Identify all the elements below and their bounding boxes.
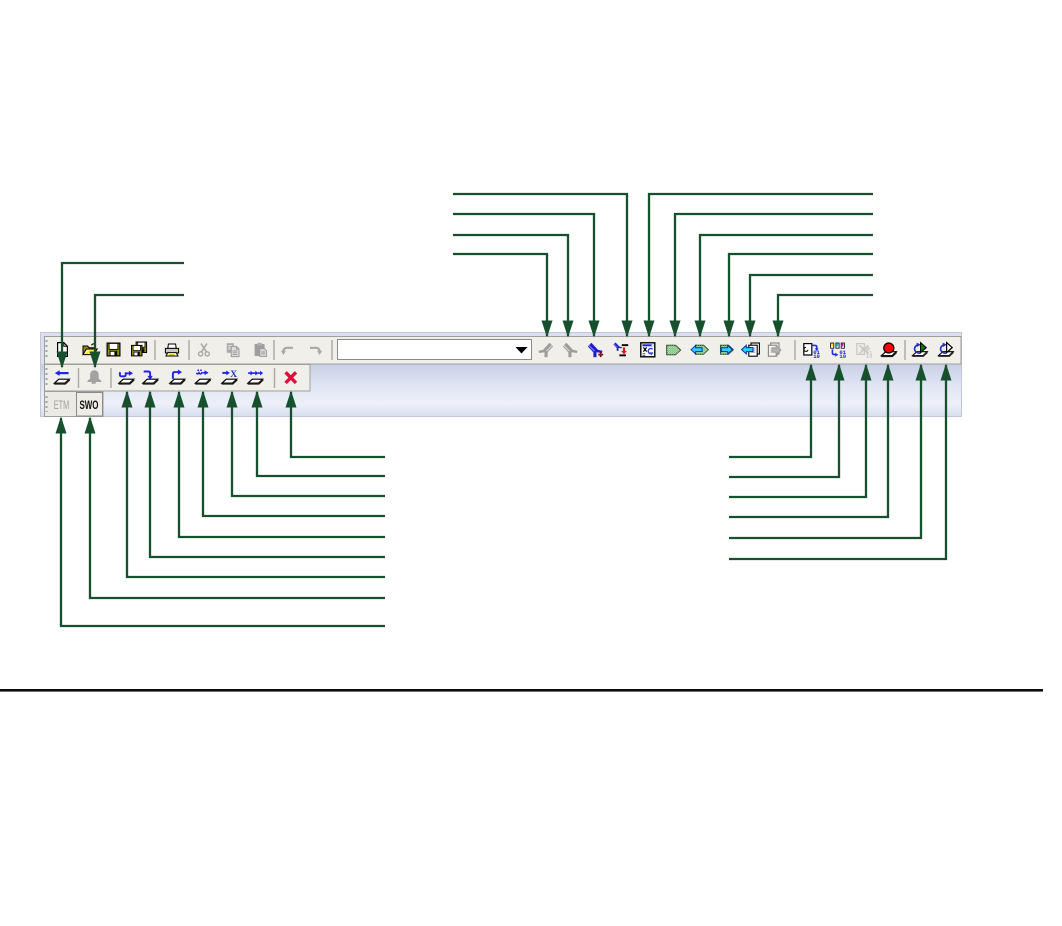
svg-text:X: X [230, 370, 237, 380]
svg-text:10: 10 [866, 353, 873, 360]
svg-text:ETM: ETM [54, 400, 70, 412]
svg-text:SWO: SWO [80, 400, 99, 412]
svg-text:10: 10 [839, 353, 846, 360]
svg-text:10: 10 [813, 353, 820, 360]
